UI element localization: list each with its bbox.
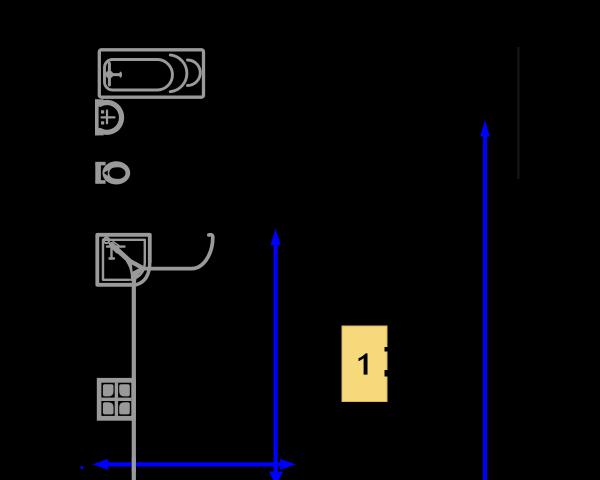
shower outer corner arc [136, 262, 150, 285]
petal bottom-left [103, 402, 114, 414]
shower spray fan lines [109, 242, 121, 254]
blue dimension arrows [81, 120, 490, 480]
shower inner square [103, 240, 145, 280]
sink bowl [100, 103, 122, 133]
bathtub arc 1 [170, 55, 187, 92]
arrow B head [480, 120, 490, 137]
faucet blob [106, 71, 114, 79]
shower inner corner arc [131, 262, 145, 280]
bathtub inner outline [105, 59, 173, 90]
toilet tank [95, 162, 105, 184]
horizontal arrow left head [93, 459, 109, 470]
horizontal arrow right head [280, 459, 296, 470]
arrow A bottom head [269, 472, 283, 480]
shower outer square [97, 235, 150, 285]
wall elbow below shower [134, 269, 144, 480]
bell black hole [132, 265, 139, 272]
bathtub arc 2 [188, 60, 201, 86]
ornament cross [115, 383, 118, 416]
digit 1 [359, 353, 368, 374]
shower diagonal spray [112, 245, 130, 261]
petal top-left [103, 384, 114, 396]
arrow A top head [271, 228, 281, 245]
shower valve cross [107, 247, 125, 259]
petal top-right [119, 384, 130, 396]
petal bottom-right [119, 402, 130, 414]
sink knobs [101, 110, 104, 113]
faint wall line top right [517, 47, 519, 179]
shower head [104, 238, 110, 244]
toilet bowl hole [109, 167, 125, 179]
room label 1 [342, 326, 388, 402]
bathtub faucet [109, 64, 120, 86]
shower door sill and arc [141, 235, 213, 269]
sink left bar [95, 99, 104, 135]
toilet notch [104, 170, 108, 176]
wall over blue crossing [132, 458, 136, 472]
bathtub outer rect [99, 50, 203, 97]
shower valve foot [110, 257, 115, 259]
sink tap [102, 111, 115, 124]
horizontal arrow shaft [105, 462, 283, 466]
toilet bowl [102, 161, 130, 184]
vertical arrow A shaft [274, 243, 278, 480]
shower spray bell [126, 258, 145, 279]
glass block ornament [97, 378, 136, 421]
small blue dot [81, 466, 84, 469]
faucet end tick [119, 73, 121, 77]
vertical arrow B shaft [483, 134, 487, 480]
